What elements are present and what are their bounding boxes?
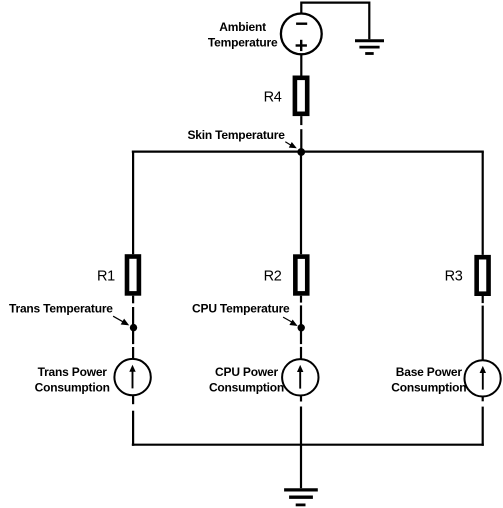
- svg-text:CPU Temperature: CPU Temperature: [192, 302, 290, 316]
- svg-text:R2: R2: [264, 268, 282, 284]
- svg-text:Trans Temperature: Trans Temperature: [9, 302, 113, 316]
- svg-text:Base Power: Base Power: [396, 365, 463, 379]
- svg-text:Consumption: Consumption: [35, 381, 110, 395]
- svg-text:R4: R4: [264, 89, 282, 105]
- svg-text:Temperature: Temperature: [208, 35, 278, 49]
- svg-text:Consumption: Consumption: [209, 381, 284, 395]
- svg-text:R1: R1: [97, 268, 115, 284]
- svg-text:Skin Temperature: Skin Temperature: [187, 128, 285, 142]
- svg-text:Consumption: Consumption: [391, 381, 466, 395]
- svg-text:Trans Power: Trans Power: [38, 365, 108, 379]
- svg-text:CPU Power: CPU Power: [215, 365, 278, 379]
- svg-text:R3: R3: [445, 268, 463, 284]
- svg-text:Ambient: Ambient: [219, 20, 266, 34]
